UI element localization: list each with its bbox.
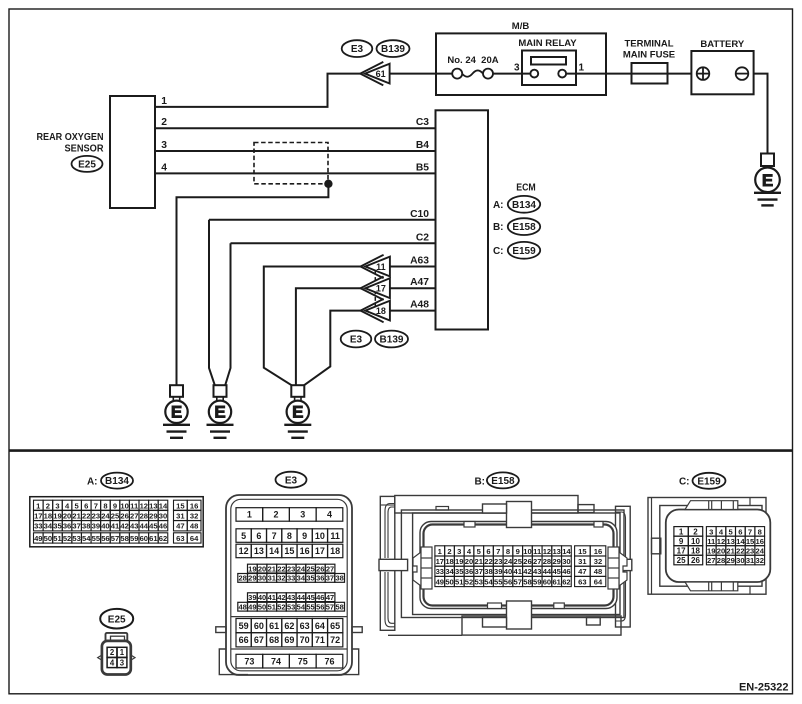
svg-text:61: 61 bbox=[269, 621, 279, 631]
svg-text:B:: B: bbox=[474, 477, 485, 488]
svg-text:C:: C: bbox=[679, 477, 690, 488]
svg-text:36: 36 bbox=[316, 574, 324, 583]
svg-text:3: 3 bbox=[514, 63, 520, 74]
svg-text:8: 8 bbox=[103, 501, 107, 510]
svg-text:9: 9 bbox=[679, 537, 684, 546]
svg-text:1: 1 bbox=[579, 63, 585, 74]
svg-text:A63: A63 bbox=[410, 256, 429, 267]
svg-text:62: 62 bbox=[159, 534, 167, 543]
svg-text:30: 30 bbox=[159, 511, 167, 520]
svg-text:30: 30 bbox=[562, 557, 570, 566]
svg-text:19: 19 bbox=[248, 564, 256, 573]
svg-text:56: 56 bbox=[504, 577, 512, 586]
svg-text:7: 7 bbox=[94, 501, 98, 510]
svg-text:34: 34 bbox=[297, 574, 306, 583]
svg-text:67: 67 bbox=[254, 635, 264, 645]
svg-text:55: 55 bbox=[92, 534, 101, 543]
svg-text:4: 4 bbox=[327, 510, 332, 520]
svg-text:36: 36 bbox=[465, 567, 473, 576]
svg-text:9: 9 bbox=[516, 547, 520, 556]
svg-text:52: 52 bbox=[277, 602, 285, 611]
svg-text:31: 31 bbox=[746, 556, 755, 565]
svg-text:48: 48 bbox=[594, 567, 602, 576]
svg-text:21: 21 bbox=[475, 557, 484, 566]
svg-text:25: 25 bbox=[677, 556, 686, 565]
svg-text:M/B: M/B bbox=[512, 21, 530, 32]
svg-text:40: 40 bbox=[258, 593, 266, 602]
svg-text:64: 64 bbox=[594, 577, 603, 586]
svg-text:6: 6 bbox=[738, 527, 742, 536]
svg-text:57: 57 bbox=[326, 602, 334, 611]
svg-text:27: 27 bbox=[326, 564, 334, 573]
svg-text:15: 15 bbox=[746, 537, 755, 546]
svg-text:39: 39 bbox=[92, 522, 100, 531]
svg-text:35: 35 bbox=[306, 574, 314, 583]
svg-text:42: 42 bbox=[523, 567, 531, 576]
svg-text:17: 17 bbox=[677, 547, 686, 556]
svg-text:20: 20 bbox=[63, 511, 71, 520]
svg-text:38: 38 bbox=[484, 567, 492, 576]
svg-text:E158: E158 bbox=[512, 222, 536, 233]
svg-text:45: 45 bbox=[552, 567, 561, 576]
svg-text:13: 13 bbox=[254, 546, 264, 556]
svg-text:34: 34 bbox=[44, 522, 53, 531]
svg-text:26: 26 bbox=[691, 556, 700, 565]
svg-text:TERMINAL: TERMINAL bbox=[624, 38, 673, 49]
svg-text:28: 28 bbox=[238, 574, 246, 583]
svg-text:46: 46 bbox=[316, 593, 324, 602]
svg-text:C2: C2 bbox=[416, 232, 429, 243]
svg-text:8: 8 bbox=[758, 527, 762, 536]
svg-text:43: 43 bbox=[130, 522, 138, 531]
svg-text:55: 55 bbox=[494, 577, 503, 586]
svg-text:24: 24 bbox=[504, 557, 513, 566]
svg-text:ECM: ECM bbox=[516, 182, 536, 193]
svg-text:REAR OXYGEN: REAR OXYGEN bbox=[37, 132, 104, 143]
svg-text:4: 4 bbox=[161, 162, 167, 173]
svg-text:18: 18 bbox=[445, 557, 453, 566]
svg-text:58: 58 bbox=[335, 602, 343, 611]
svg-text:46: 46 bbox=[562, 567, 570, 576]
svg-text:63: 63 bbox=[176, 534, 184, 543]
svg-text:51: 51 bbox=[455, 577, 464, 586]
svg-text:24: 24 bbox=[101, 511, 110, 520]
svg-text:58: 58 bbox=[523, 577, 531, 586]
svg-text:53: 53 bbox=[72, 534, 80, 543]
svg-text:34: 34 bbox=[445, 567, 454, 576]
svg-text:22: 22 bbox=[484, 557, 492, 566]
svg-text:61: 61 bbox=[376, 69, 386, 79]
svg-text:59: 59 bbox=[239, 621, 249, 631]
svg-text:2: 2 bbox=[46, 501, 50, 510]
svg-text:9: 9 bbox=[113, 501, 117, 510]
svg-text:63: 63 bbox=[578, 577, 586, 586]
svg-text:15: 15 bbox=[176, 501, 185, 510]
svg-text:7: 7 bbox=[496, 547, 500, 556]
svg-text:A:: A: bbox=[493, 200, 504, 211]
svg-text:6: 6 bbox=[486, 547, 490, 556]
svg-text:11: 11 bbox=[130, 501, 139, 510]
svg-text:38: 38 bbox=[335, 574, 343, 583]
svg-text:64: 64 bbox=[315, 621, 325, 631]
svg-text:C3: C3 bbox=[416, 117, 429, 128]
svg-text:MAIN RELAY: MAIN RELAY bbox=[518, 38, 577, 49]
svg-text:31: 31 bbox=[578, 557, 587, 566]
svg-text:18: 18 bbox=[44, 511, 52, 520]
svg-text:50: 50 bbox=[445, 577, 453, 586]
svg-text:60: 60 bbox=[140, 534, 148, 543]
svg-text:13: 13 bbox=[149, 501, 157, 510]
svg-text:1: 1 bbox=[120, 648, 125, 657]
svg-text:27: 27 bbox=[707, 556, 715, 565]
svg-text:22: 22 bbox=[736, 546, 744, 555]
svg-text:21: 21 bbox=[726, 546, 735, 555]
svg-text:49: 49 bbox=[34, 534, 42, 543]
svg-text:B5: B5 bbox=[416, 162, 429, 173]
svg-text:59: 59 bbox=[130, 534, 138, 543]
svg-text:33: 33 bbox=[436, 567, 444, 576]
svg-text:63: 63 bbox=[300, 621, 310, 631]
svg-text:9: 9 bbox=[302, 531, 307, 541]
svg-text:7: 7 bbox=[272, 531, 277, 541]
svg-text:37: 37 bbox=[475, 567, 483, 576]
svg-text:54: 54 bbox=[484, 577, 493, 586]
svg-text:47: 47 bbox=[578, 567, 586, 576]
svg-text:69: 69 bbox=[284, 635, 294, 645]
svg-text:19: 19 bbox=[707, 546, 715, 555]
svg-text:32: 32 bbox=[190, 511, 198, 520]
svg-text:14: 14 bbox=[159, 501, 168, 510]
svg-text:24: 24 bbox=[297, 564, 306, 573]
svg-text:1: 1 bbox=[679, 527, 684, 536]
svg-text:E159: E159 bbox=[697, 476, 721, 487]
svg-text:48: 48 bbox=[190, 522, 198, 531]
svg-text:3: 3 bbox=[120, 658, 125, 667]
svg-text:50: 50 bbox=[44, 534, 52, 543]
svg-text:E3: E3 bbox=[351, 44, 364, 55]
svg-text:31: 31 bbox=[268, 574, 276, 583]
svg-text:44: 44 bbox=[543, 567, 552, 576]
svg-text:A48: A48 bbox=[410, 300, 429, 311]
svg-text:32: 32 bbox=[594, 557, 602, 566]
svg-text:62: 62 bbox=[284, 621, 294, 631]
svg-text:11: 11 bbox=[707, 537, 716, 546]
svg-text:26: 26 bbox=[523, 557, 531, 566]
svg-text:41: 41 bbox=[111, 522, 120, 531]
svg-text:19: 19 bbox=[455, 557, 463, 566]
svg-text:3: 3 bbox=[300, 510, 305, 520]
svg-text:E25: E25 bbox=[108, 614, 126, 625]
svg-text:54: 54 bbox=[297, 602, 306, 611]
svg-text:1: 1 bbox=[247, 510, 252, 520]
svg-text:18: 18 bbox=[376, 306, 386, 316]
svg-text:52: 52 bbox=[465, 577, 473, 586]
svg-text:5: 5 bbox=[241, 531, 246, 541]
svg-text:23: 23 bbox=[494, 557, 502, 566]
svg-text:3: 3 bbox=[55, 501, 59, 510]
svg-text:37: 37 bbox=[326, 574, 334, 583]
svg-text:58: 58 bbox=[120, 534, 128, 543]
svg-text:C:: C: bbox=[493, 246, 504, 257]
svg-text:62: 62 bbox=[562, 577, 570, 586]
svg-text:13: 13 bbox=[552, 547, 560, 556]
svg-text:20: 20 bbox=[258, 564, 266, 573]
svg-text:39: 39 bbox=[248, 593, 256, 602]
svg-text:47: 47 bbox=[176, 522, 184, 531]
svg-text:49: 49 bbox=[248, 602, 256, 611]
svg-text:53: 53 bbox=[287, 602, 295, 611]
svg-text:48: 48 bbox=[238, 602, 246, 611]
svg-text:68: 68 bbox=[269, 635, 279, 645]
svg-text:22: 22 bbox=[277, 564, 285, 573]
svg-text:45: 45 bbox=[306, 593, 314, 602]
svg-text:19: 19 bbox=[53, 511, 61, 520]
svg-text:18: 18 bbox=[691, 547, 700, 556]
svg-text:15: 15 bbox=[578, 547, 587, 556]
svg-text:25: 25 bbox=[306, 564, 314, 573]
svg-text:40: 40 bbox=[101, 522, 109, 531]
svg-text:1: 1 bbox=[161, 96, 167, 107]
svg-text:B134: B134 bbox=[512, 200, 536, 211]
svg-text:41: 41 bbox=[513, 567, 522, 576]
svg-text:70: 70 bbox=[300, 635, 310, 645]
svg-text:29: 29 bbox=[726, 556, 734, 565]
svg-text:16: 16 bbox=[756, 537, 764, 546]
svg-text:15: 15 bbox=[284, 546, 294, 556]
svg-text:30: 30 bbox=[258, 574, 266, 583]
svg-text:6: 6 bbox=[84, 501, 88, 510]
svg-text:28: 28 bbox=[140, 511, 148, 520]
svg-text:23: 23 bbox=[746, 546, 754, 555]
svg-text:60: 60 bbox=[543, 577, 551, 586]
svg-text:17: 17 bbox=[315, 546, 325, 556]
svg-text:42: 42 bbox=[277, 593, 285, 602]
svg-text:E25: E25 bbox=[78, 160, 96, 171]
svg-text:12: 12 bbox=[239, 546, 249, 556]
svg-text:12: 12 bbox=[543, 547, 551, 556]
svg-text:6: 6 bbox=[256, 531, 261, 541]
svg-text:7: 7 bbox=[748, 527, 752, 536]
svg-text:26: 26 bbox=[316, 564, 324, 573]
svg-text:14: 14 bbox=[562, 547, 571, 556]
svg-text:18: 18 bbox=[330, 546, 340, 556]
svg-text:21: 21 bbox=[268, 564, 276, 573]
svg-text:43: 43 bbox=[533, 567, 541, 576]
svg-text:10: 10 bbox=[315, 531, 325, 541]
svg-text:31: 31 bbox=[176, 511, 185, 520]
svg-text:52: 52 bbox=[63, 534, 71, 543]
svg-text:33: 33 bbox=[287, 574, 295, 583]
svg-text:51: 51 bbox=[268, 602, 276, 611]
svg-text:16: 16 bbox=[594, 547, 602, 556]
svg-text:39: 39 bbox=[494, 567, 502, 576]
svg-text:29: 29 bbox=[248, 574, 256, 583]
svg-text:B134: B134 bbox=[105, 476, 129, 487]
svg-text:56: 56 bbox=[316, 602, 324, 611]
svg-text:8: 8 bbox=[506, 547, 510, 556]
svg-text:16: 16 bbox=[300, 546, 310, 556]
svg-text:57: 57 bbox=[111, 534, 119, 543]
svg-text:SENSOR: SENSOR bbox=[65, 143, 105, 154]
svg-text:20: 20 bbox=[465, 557, 473, 566]
svg-text:E158: E158 bbox=[491, 476, 515, 487]
svg-text:42: 42 bbox=[120, 522, 128, 531]
svg-text:17: 17 bbox=[376, 284, 386, 294]
svg-text:75: 75 bbox=[298, 656, 308, 666]
svg-text:No. 24 20A: No. 24 20A bbox=[447, 55, 498, 66]
svg-text:25: 25 bbox=[513, 557, 522, 566]
svg-text:22: 22 bbox=[82, 511, 90, 520]
svg-text:23: 23 bbox=[287, 564, 295, 573]
svg-text:8: 8 bbox=[287, 531, 292, 541]
svg-text:61: 61 bbox=[552, 577, 561, 586]
svg-text:C10: C10 bbox=[410, 209, 429, 220]
svg-text:E159: E159 bbox=[512, 246, 536, 257]
svg-text:33: 33 bbox=[34, 522, 42, 531]
svg-text:35: 35 bbox=[53, 522, 62, 531]
svg-text:12: 12 bbox=[140, 501, 148, 510]
svg-text:51: 51 bbox=[53, 534, 62, 543]
svg-text:49: 49 bbox=[436, 577, 444, 586]
svg-text:B:: B: bbox=[493, 222, 504, 233]
svg-text:32: 32 bbox=[277, 574, 285, 583]
svg-text:16: 16 bbox=[190, 501, 198, 510]
svg-text:17: 17 bbox=[34, 511, 42, 520]
svg-text:23: 23 bbox=[92, 511, 100, 520]
svg-text:25: 25 bbox=[111, 511, 120, 520]
svg-text:EN-25322: EN-25322 bbox=[739, 682, 789, 694]
svg-text:A:: A: bbox=[87, 477, 98, 488]
svg-text:54: 54 bbox=[82, 534, 91, 543]
svg-text:17: 17 bbox=[436, 557, 444, 566]
svg-text:B4: B4 bbox=[416, 140, 429, 151]
svg-text:65: 65 bbox=[330, 621, 340, 631]
svg-text:76: 76 bbox=[324, 656, 334, 666]
svg-text:41: 41 bbox=[268, 593, 276, 602]
svg-text:72: 72 bbox=[330, 635, 340, 645]
svg-text:66: 66 bbox=[239, 635, 249, 645]
svg-text:14: 14 bbox=[269, 546, 279, 556]
svg-text:43: 43 bbox=[287, 593, 295, 602]
svg-text:2: 2 bbox=[447, 547, 451, 556]
svg-text:E: E bbox=[292, 402, 303, 421]
svg-text:2: 2 bbox=[693, 527, 698, 536]
svg-text:10: 10 bbox=[523, 547, 531, 556]
svg-text:10: 10 bbox=[120, 501, 128, 510]
svg-text:20: 20 bbox=[717, 546, 725, 555]
svg-text:46: 46 bbox=[159, 522, 167, 531]
svg-text:A47: A47 bbox=[410, 277, 429, 288]
svg-text:53: 53 bbox=[475, 577, 483, 586]
svg-text:47: 47 bbox=[326, 593, 334, 602]
svg-text:32: 32 bbox=[756, 556, 764, 565]
svg-text:3: 3 bbox=[457, 547, 461, 556]
svg-text:21: 21 bbox=[72, 511, 81, 520]
svg-text:24: 24 bbox=[756, 546, 765, 555]
svg-text:3: 3 bbox=[709, 527, 713, 536]
svg-text:E: E bbox=[762, 171, 773, 190]
svg-text:4: 4 bbox=[110, 658, 115, 667]
svg-text:E: E bbox=[171, 402, 182, 421]
svg-text:55: 55 bbox=[306, 602, 314, 611]
svg-text:14: 14 bbox=[736, 537, 745, 546]
svg-text:45: 45 bbox=[149, 522, 158, 531]
svg-text:44: 44 bbox=[297, 593, 306, 602]
svg-text:30: 30 bbox=[736, 556, 744, 565]
svg-text:E: E bbox=[214, 402, 225, 421]
svg-text:26: 26 bbox=[120, 511, 128, 520]
svg-text:12: 12 bbox=[717, 537, 725, 546]
svg-text:B139: B139 bbox=[381, 44, 405, 55]
svg-text:11: 11 bbox=[376, 262, 386, 272]
svg-text:73: 73 bbox=[244, 656, 254, 666]
svg-text:3: 3 bbox=[161, 140, 167, 151]
svg-text:64: 64 bbox=[190, 534, 199, 543]
svg-text:36: 36 bbox=[63, 522, 71, 531]
svg-text:MAIN FUSE: MAIN FUSE bbox=[623, 49, 675, 60]
svg-text:60: 60 bbox=[254, 621, 264, 631]
svg-text:29: 29 bbox=[552, 557, 560, 566]
svg-text:28: 28 bbox=[717, 556, 725, 565]
svg-text:28: 28 bbox=[543, 557, 551, 566]
svg-text:56: 56 bbox=[101, 534, 109, 543]
svg-text:E3: E3 bbox=[285, 475, 298, 486]
svg-text:59: 59 bbox=[533, 577, 541, 586]
svg-text:38: 38 bbox=[82, 522, 90, 531]
svg-text:40: 40 bbox=[504, 567, 512, 576]
svg-text:BATTERY: BATTERY bbox=[700, 39, 744, 50]
svg-text:11: 11 bbox=[330, 531, 340, 541]
svg-text:35: 35 bbox=[455, 567, 464, 576]
svg-text:61: 61 bbox=[149, 534, 158, 543]
svg-text:2: 2 bbox=[274, 510, 279, 520]
svg-text:B139: B139 bbox=[380, 335, 404, 346]
svg-text:44: 44 bbox=[140, 522, 149, 531]
svg-text:57: 57 bbox=[513, 577, 521, 586]
svg-text:2: 2 bbox=[110, 648, 115, 657]
svg-text:27: 27 bbox=[130, 511, 138, 520]
svg-text:74: 74 bbox=[271, 656, 281, 666]
svg-text:29: 29 bbox=[149, 511, 157, 520]
svg-text:E3: E3 bbox=[350, 335, 363, 346]
svg-text:11: 11 bbox=[533, 547, 542, 556]
svg-text:27: 27 bbox=[533, 557, 541, 566]
svg-text:2: 2 bbox=[161, 117, 167, 128]
svg-text:13: 13 bbox=[726, 537, 734, 546]
svg-text:10: 10 bbox=[691, 537, 700, 546]
svg-text:50: 50 bbox=[258, 602, 266, 611]
svg-text:37: 37 bbox=[72, 522, 80, 531]
svg-text:71: 71 bbox=[315, 635, 325, 645]
